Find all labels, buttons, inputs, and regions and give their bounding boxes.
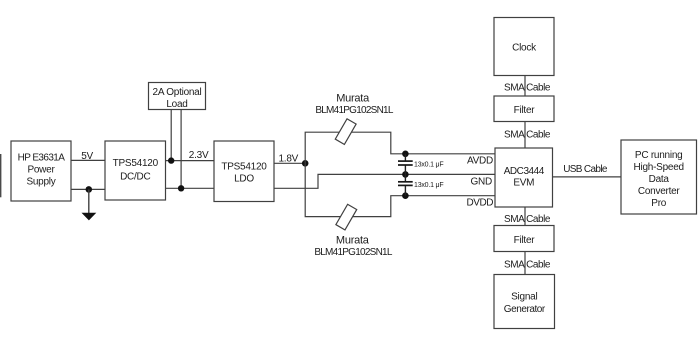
cropped line artifact at left edge (0, 154, 2, 197)
svg-text:GND: GND (471, 176, 493, 187)
svg-text:Load: Load (166, 99, 187, 110)
svg-text:ADC3444: ADC3444 (504, 166, 545, 177)
svg-text:5V: 5V (81, 151, 93, 162)
wire: load left leg (170, 110, 172, 161)
block: 2A optional load (149, 83, 206, 110)
block: TPS54120 LDO (214, 141, 274, 202)
svg-text:DC/DC: DC/DC (120, 171, 150, 182)
node: load-2.3V junction dot (168, 157, 174, 163)
block: PC running High-Speed Data Converter Pro (621, 140, 697, 214)
block: HP E3631A power supply (11, 141, 71, 201)
block: Clock (494, 18, 554, 76)
svg-text:USB Cable: USB Cable (563, 164, 608, 175)
svg-text:Power: Power (27, 165, 55, 176)
ferrite bead L1 (top Murata) (335, 119, 356, 145)
wire: clock to filter (524, 76, 526, 97)
node: DVDD cap dot (402, 192, 409, 199)
svg-text:BLM41PG102SN1L: BLM41PG102SN1L (314, 247, 393, 258)
node: ground junction dot (86, 186, 93, 193)
wire: GND line with step (274, 174, 495, 188)
svg-text:Generator: Generator (504, 304, 546, 315)
ferrite bead L2 (bottom Murata) (336, 204, 357, 230)
svg-text:HP E3631A: HP E3631A (18, 153, 66, 164)
wire 1.8V: LDO output (274, 162, 305, 164)
capacitor C2 plates (398, 181, 413, 183)
wire: filter2 to signal generator (524, 252, 526, 275)
svg-text:SMA Cable: SMA Cable (504, 83, 551, 94)
svg-text:Clock: Clock (512, 43, 537, 54)
node: 1.8V junction dot (302, 160, 309, 167)
svg-text:DVDD: DVDD (466, 198, 493, 209)
svg-text:13x0.1 μF: 13x0.1 μF (414, 182, 443, 189)
svg-text:TPS54120: TPS54120 (113, 158, 159, 169)
svg-text:1.8V: 1.8V (279, 153, 299, 164)
block: Filter (top) (494, 96, 554, 122)
svg-text:Converter: Converter (638, 186, 681, 197)
wire: filter to ADC EVM (524, 122, 526, 149)
svg-text:TPS54120: TPS54120 (221, 162, 267, 173)
wire: USB cable (553, 176, 622, 178)
svg-text:Filter: Filter (514, 105, 536, 116)
wire: DC/DC to LDO lower (166, 187, 215, 189)
svg-text:LDO: LDO (234, 174, 254, 185)
svg-text:SMA Cable: SMA Cable (504, 259, 551, 270)
svg-text:PC running: PC running (635, 150, 683, 161)
capacitor C2 leads (404, 174, 406, 181)
capacitor C1 plates (398, 160, 413, 162)
svg-text:Supply: Supply (26, 177, 55, 188)
wire: power supply lower to DC/DC (71, 188, 105, 190)
wire: ADC EVM to filter2 (524, 207, 526, 226)
svg-text:Pro: Pro (651, 198, 667, 209)
wire 5V: power supply to DC/DC (71, 159, 105, 161)
svg-text:AVDD: AVDD (467, 156, 493, 167)
node: GND cap dot (402, 171, 409, 178)
wire: ground stem (88, 189, 90, 213)
svg-text:High-Speed: High-Speed (634, 162, 684, 173)
wire: load right leg (180, 110, 182, 189)
block: Filter (bottom) (494, 226, 554, 252)
block: ADC3444 EVM (495, 148, 553, 207)
node: AVDD cap dot (402, 151, 409, 158)
svg-text:SMA Cable: SMA Cable (504, 130, 551, 141)
block: Signal Generator (494, 275, 555, 329)
ground symbol (82, 213, 97, 221)
wire 2.3V: DC/DC to LDO upper (166, 160, 215, 162)
block: TPS54120 DC/DC (105, 141, 166, 200)
capacitor C1 leads (404, 154, 406, 161)
svg-text:13x0.1 μF: 13x0.1 μF (414, 161, 443, 168)
wire: AVDD branch (305, 132, 495, 163)
svg-text:2.3V: 2.3V (189, 150, 209, 161)
svg-text:Murata: Murata (336, 234, 370, 246)
svg-text:EVM: EVM (513, 177, 534, 188)
svg-text:SMA Cable: SMA Cable (504, 214, 551, 225)
svg-text:Signal: Signal (511, 292, 537, 303)
svg-text:Filter: Filter (514, 235, 536, 246)
svg-text:BLM41PG102SN1L: BLM41PG102SN1L (315, 105, 394, 116)
svg-text:2A Optional: 2A Optional (153, 87, 202, 98)
wire: DVDD branch (305, 163, 495, 216)
node: load-lower junction dot (178, 185, 184, 191)
svg-text:Data: Data (649, 174, 670, 185)
svg-text:Murata: Murata (336, 93, 370, 105)
